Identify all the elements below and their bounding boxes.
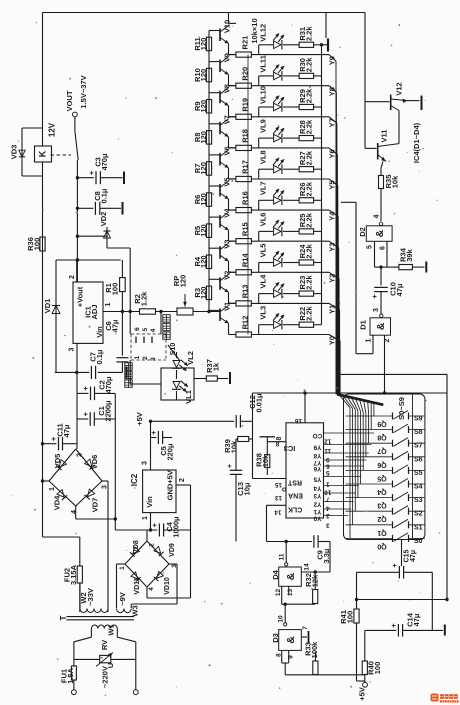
wire VD2 to ADJ node (107, 248, 130, 312)
resistor R22 2.2k (283, 306, 322, 328)
wire Y3 bundle (338, 248, 340, 395)
regulator IC2 (130, 470, 176, 513)
pin 6 D2 (380, 241, 388, 267)
power cell for LED bus (322, 13, 329, 52)
node Y1 tag (328, 303, 340, 314)
svg-text:2.2k: 2.2k (305, 88, 314, 103)
svg-text:+: + (81, 386, 90, 391)
svg-text:Y2: Y2 (328, 274, 337, 283)
svg-text:120: 120 (199, 255, 208, 268)
svg-text:5: 5 (326, 469, 330, 476)
wire Y0 bundle (339, 341, 341, 395)
wire LED stub 7 (258, 263, 260, 273)
resistor R30 2.2k (283, 57, 322, 79)
svg-text:~9V: ~9V (118, 592, 127, 606)
wire row bottom main 2 (252, 116, 330, 118)
terminal AC left (72, 690, 77, 695)
svg-text:2: 2 (77, 453, 84, 457)
svg-text:470μ: 470μ (100, 153, 109, 171)
wire Y7 bundle (336, 123, 338, 394)
svg-text:10k: 10k (391, 175, 400, 188)
svg-text:VL5: VL5 (259, 244, 268, 258)
svg-text:14: 14 (274, 509, 281, 516)
pin 9 Y8 IC3 (313, 452, 369, 463)
pin 10 D3 (278, 615, 287, 626)
winding W2 33V (79, 583, 108, 613)
wire emitter V5 to row (229, 199, 237, 210)
pin 8 D3 (276, 650, 283, 663)
svg-text:RST: RST (287, 478, 302, 485)
label VOUT 1.5V-37V (65, 75, 88, 111)
svg-text:4: 4 (71, 510, 78, 514)
svg-text:Q1: Q1 (377, 529, 386, 536)
resistor R15 10k (236, 222, 252, 243)
svg-text:&: & (374, 229, 386, 237)
svg-text:5: 5 (142, 327, 149, 331)
wire bundle fan diagonal (337, 394, 383, 405)
svg-text:S7: S7 (414, 443, 423, 450)
LED VL7 (259, 181, 285, 205)
transistor V3 (209, 240, 232, 262)
svg-text:CO: CO (313, 432, 323, 439)
svg-text:+: + (370, 294, 379, 299)
svg-text:100: 100 (373, 662, 382, 675)
svg-text:S9: S9 (414, 416, 423, 423)
svg-text:IC4(D1~D4): IC4(D1~D4) (412, 122, 421, 163)
resistor R16 10k (236, 191, 252, 212)
resistor R10 120 (193, 68, 212, 82)
switch S8 (346, 424, 425, 441)
svg-text:S3: S3 (414, 497, 423, 504)
wire Y2 bundle (338, 279, 340, 395)
svg-text:S5: S5 (414, 470, 423, 477)
svg-text:6: 6 (380, 246, 387, 250)
svg-text:Y9: Y9 (313, 443, 321, 450)
pin 13 D4 (287, 586, 294, 596)
LED VL3 (259, 306, 285, 330)
svg-text:10k: 10k (230, 440, 239, 453)
wire ADJ node R2 row (103, 310, 220, 334)
pin 1 Y5 IC3 (313, 475, 361, 487)
counter IC3 (284, 423, 324, 518)
LED VL11 (259, 55, 285, 81)
svg-text:R15: R15 (241, 222, 250, 236)
pin 2 IC2 (176, 478, 191, 598)
svg-text:W1: W1 (107, 624, 116, 635)
wire emitter V6 to row (229, 168, 237, 179)
svg-text:VD6: VD6 (90, 455, 99, 470)
label 12V (48, 122, 57, 137)
wire C15 row (357, 572, 433, 630)
svg-text:V12: V12 (395, 82, 404, 95)
gate D1 (359, 318, 391, 335)
switch S9 (346, 411, 425, 428)
wire row bottom main 8 (252, 302, 330, 304)
switch S5 (346, 465, 425, 482)
svg-text:12: 12 (275, 589, 282, 597)
LED VL1 (172, 352, 193, 404)
svg-text:Vin: Vin (145, 496, 154, 508)
wire bus B +5V logic (253, 391, 448, 394)
svg-text:S0: S0 (414, 538, 423, 545)
wire row bottom 3 (229, 116, 237, 118)
wire LED stub 1 (258, 76, 260, 86)
transistor V1 (209, 302, 232, 324)
LED VL10 (259, 86, 285, 112)
pin 12 D4 (275, 586, 282, 604)
watermark logo (431, 694, 459, 703)
resistor R37 1k (194, 359, 230, 384)
resistor R11 120 (193, 37, 212, 51)
svg-text:D4: D4 (271, 569, 280, 579)
gate D4 (271, 563, 311, 586)
svg-text:2.2k: 2.2k (305, 306, 314, 321)
svg-text:14: 14 (304, 563, 311, 571)
node Y6 tag (328, 148, 338, 159)
resistor R12 10k (236, 316, 252, 337)
svg-text:W3: W3 (131, 605, 140, 616)
wire 10k chain link 3 (247, 148, 249, 179)
wire 10k chain link 0 (247, 55, 249, 86)
svg-text:+: + (87, 170, 96, 175)
wire emitter V3 to row (229, 261, 237, 272)
svg-text:120: 120 (179, 275, 188, 288)
svg-text:VL2: VL2 (186, 351, 195, 365)
wire row bottom 2 (229, 85, 237, 87)
svg-text:220μ: 220μ (166, 443, 175, 461)
svg-text:R19: R19 (241, 98, 250, 112)
svg-text:120: 120 (199, 193, 208, 206)
svg-text:Q5: Q5 (377, 474, 386, 481)
svg-text:4: 4 (150, 328, 157, 332)
resistor R21 10k (236, 36, 252, 57)
svg-text:2.2k: 2.2k (305, 243, 314, 258)
svg-text:+5V: +5V (135, 412, 144, 426)
svg-text:Q4: Q4 (377, 488, 386, 495)
wire 10k chain link 1 (247, 86, 249, 117)
svg-text:&: & (285, 572, 297, 580)
svg-text:Y5: Y5 (313, 475, 321, 482)
svg-text:10k×10: 10k×10 (250, 18, 259, 43)
wire bridge feed (76, 419, 78, 449)
wire LED stub 0 (258, 45, 260, 55)
resistor R9 120 (193, 100, 212, 114)
svg-text:Y9: Y9 (328, 56, 337, 65)
svg-text:12: 12 (324, 437, 332, 444)
wire row bottom 7 (229, 240, 237, 242)
svg-text:Y7: Y7 (328, 118, 337, 127)
svg-text:1.5A: 1.5A (66, 667, 75, 683)
svg-text:R13: R13 (241, 285, 250, 299)
svg-text:Y4: Y4 (328, 211, 337, 221)
svg-text:8: 8 (276, 653, 283, 657)
pin 7 D3 (301, 626, 309, 644)
wire right edge drop (445, 374, 448, 601)
label +5V (135, 412, 144, 426)
svg-text:12k: 12k (311, 574, 320, 587)
switch S2 (346, 506, 425, 523)
capacitor C10 47u (370, 282, 404, 314)
resistor R3 120 (193, 286, 212, 300)
wire row bottom main 6 (252, 240, 330, 242)
wire 10k chain link 5 (247, 210, 249, 241)
svg-text:120: 120 (199, 162, 208, 175)
bridge rectifier VD8-VD11 (119, 530, 178, 595)
wire bus A (336, 373, 447, 375)
svg-text:RV: RV (100, 640, 109, 650)
svg-text:3: 3 (150, 357, 157, 361)
pin 1 IC2 (142, 513, 151, 530)
svg-text:2.2k: 2.2k (305, 212, 314, 227)
svg-text:Y3: Y3 (328, 243, 337, 252)
wire D4 out (282, 603, 316, 623)
wire bridge left AC (43, 480, 50, 482)
capacitor C14 47u (365, 612, 443, 636)
capacitor C12 0.01u (236, 393, 263, 428)
svg-text:2: 2 (179, 478, 186, 482)
wire LED cathode bus (320, 43, 323, 325)
wire LED stub 9 (258, 325, 260, 335)
svg-text:Y2: Y2 (313, 500, 321, 507)
switch bank box S0~S9 (344, 394, 425, 540)
wire 10k chain link 8 (247, 303, 249, 334)
fuse FU1 1.5A (60, 659, 77, 690)
wire LED stub 4 (258, 169, 260, 179)
gate D3 (271, 630, 301, 651)
pin 3 IC2 (142, 421, 151, 470)
wire left rail (41, 13, 44, 538)
svg-text:15: 15 (275, 481, 282, 488)
label low-voltage (125, 363, 132, 388)
svg-text:VD9: VD9 (169, 543, 176, 557)
svg-text:13: 13 (275, 494, 282, 501)
svg-text:100: 100 (111, 283, 120, 296)
resistor R7 120 (193, 162, 212, 176)
wire Y4 bundle (337, 217, 339, 395)
wire D3 out (282, 663, 365, 675)
svg-text:+Vout: +Vout (76, 286, 85, 307)
wire +Vout node (56, 258, 121, 261)
svg-text:VD10: VD10 (164, 577, 171, 595)
wire C9 to pin14 D4 (301, 542, 330, 574)
svg-text:+: + (392, 563, 399, 567)
resistor R8 120 (193, 131, 212, 145)
capacitor C15 47u (392, 540, 417, 579)
resistor R39 10k (223, 437, 253, 454)
svg-text:100k: 100k (310, 641, 319, 659)
svg-text:Y7: Y7 (313, 459, 321, 466)
svg-text:T: T (59, 615, 68, 620)
switch S7 (346, 438, 425, 455)
svg-text:1: 1 (119, 566, 126, 570)
pin 3 Y0 IC3 (313, 514, 348, 528)
svg-text:1: 1 (49, 487, 56, 491)
wire LED stub 8 (258, 294, 260, 304)
svg-text:Q8: Q8 (377, 434, 386, 441)
wire emitter V9 to row (229, 75, 237, 86)
wire bridge2 left to W3 (117, 564, 126, 608)
svg-text:Y6: Y6 (328, 149, 337, 158)
svg-text:4: 4 (148, 587, 155, 591)
capacitor C13 10u (227, 439, 252, 542)
svg-text:+: + (389, 623, 398, 628)
svg-text:D1: D1 (359, 320, 368, 330)
svg-text:VL9: VL9 (259, 119, 268, 133)
svg-text:R16: R16 (241, 191, 250, 205)
svg-text:8: 8 (275, 440, 279, 447)
wire LED stub 5 (258, 200, 260, 210)
pin 4 Y2 IC3 (313, 500, 353, 511)
svg-text:1: 1 (134, 355, 141, 359)
svg-text:Q7: Q7 (377, 447, 386, 454)
svg-text:S2: S2 (414, 511, 423, 518)
wire emitter V7 to row (229, 137, 237, 148)
svg-text:VL1: VL1 (184, 390, 193, 404)
svg-text:9: 9 (326, 456, 330, 463)
svg-text:Y8: Y8 (328, 87, 337, 96)
wire emitter V8 to row (229, 106, 237, 117)
varistor RV (96, 640, 115, 668)
svg-text:VL12: VL12 (259, 24, 268, 42)
svg-text:Q9: Q9 (377, 420, 386, 427)
LED VL9 (259, 119, 285, 143)
node Y3 tag (328, 241, 339, 252)
svg-text:Y4: Y4 (313, 484, 321, 491)
node Y4 tag (328, 210, 339, 221)
transistor V12 (365, 82, 407, 110)
resistor R29 2.2k (283, 88, 322, 110)
svg-text:Q0: Q0 (377, 542, 386, 549)
resistor R5 120 (193, 224, 212, 238)
svg-text:120: 120 (199, 224, 208, 237)
wire bridge right AC (102, 481, 108, 612)
svg-text:Y0: Y0 (328, 336, 337, 345)
wire LED stub 2 (258, 107, 260, 117)
svg-text:Y8: Y8 (313, 452, 321, 459)
capacitor C3 470u (77, 153, 124, 184)
svg-text:7: 7 (302, 626, 309, 630)
svg-text:VL10: VL10 (259, 86, 268, 104)
pin 8 IC3 (276, 436, 283, 440)
node Y2 tag (328, 272, 340, 283)
svg-text:39k: 39k (405, 248, 414, 261)
capacitor C9 3.3u (314, 535, 331, 563)
svg-text:2: 2 (149, 543, 156, 547)
svg-text:V4: V4 (223, 208, 232, 218)
capacitor C7 0.1u (89, 349, 105, 379)
svg-text:ADJ: ADJ (90, 304, 99, 319)
svg-text:VOUT: VOUT (65, 90, 74, 111)
wire row bottom 6 (229, 209, 237, 211)
pin 12 CO IC3 (313, 432, 374, 445)
node Y7 tag (328, 117, 337, 128)
svg-text:V11: V11 (380, 130, 389, 143)
label high-voltage (163, 315, 170, 340)
transistor V6 (209, 146, 232, 168)
node Y5 tag (328, 179, 338, 190)
wire divider bus (208, 31, 210, 312)
svg-text:Y1: Y1 (328, 305, 337, 314)
capacitor C2 470u (77, 372, 115, 400)
svg-text:1: 1 (326, 480, 330, 487)
LED VL12 (259, 24, 285, 50)
svg-text:Y3: Y3 (313, 492, 321, 499)
svg-text:VD2: VD2 (99, 212, 108, 227)
pin 4 D2 (374, 214, 383, 225)
svg-text:D3: D3 (271, 633, 280, 643)
transistor V8 (209, 84, 232, 106)
transistor V5 (209, 177, 232, 199)
resistor R41 100 (339, 609, 359, 681)
pin 9 D3 (288, 650, 295, 663)
svg-text:VD1: VD1 (43, 299, 52, 314)
svg-text:VD5: VD5 (53, 454, 62, 469)
svg-text:10: 10 (324, 488, 332, 495)
svg-text:Y0: Y0 (313, 514, 321, 521)
resistor R24 2.2k (283, 243, 322, 265)
diode VD2 (77, 212, 110, 248)
wire Y6 bundle (336, 154, 338, 394)
svg-text:Y6: Y6 (313, 465, 321, 472)
wire bridge2 right to W3 (131, 564, 177, 608)
capacitor C8 0.1u (77, 188, 122, 215)
svg-text:100: 100 (32, 238, 41, 251)
ground C14 (444, 625, 446, 636)
svg-text:10μ: 10μ (243, 482, 252, 495)
resistor R17 10k (236, 160, 252, 181)
svg-text:VD8: VD8 (133, 540, 140, 554)
wire R41 node (355, 598, 447, 601)
pin 10 Y4 IC3 (313, 484, 359, 495)
wire Y9 bundle (335, 61, 337, 394)
svg-text:47μ: 47μ (410, 550, 417, 562)
svg-text:2.2k: 2.2k (305, 181, 314, 196)
pin 2 Y1 IC3 (313, 508, 351, 519)
svg-text:120: 120 (199, 69, 208, 82)
svg-text:GND: GND (166, 483, 175, 500)
resistor R32 12k (304, 572, 320, 604)
switch contact K-1 (75, 131, 78, 160)
switch S3 (346, 492, 425, 509)
resistor R35 10k (379, 162, 400, 222)
LED indicator box VL1 VL2 (130, 360, 194, 400)
label IC4(D1~D4) (412, 122, 421, 163)
pin 6 Y7 IC3 (313, 459, 366, 470)
switch bank divider (412, 394, 414, 540)
wire row bottom 1 (229, 54, 237, 56)
wire row bottom main 5 (252, 209, 330, 211)
svg-text:R21: R21 (241, 36, 250, 50)
switch S0 (346, 533, 425, 550)
pin 5 Y6 IC3 (313, 465, 364, 476)
winding W1 primary (91, 624, 117, 637)
pin 16 IC3 (295, 393, 305, 424)
wire Vin node (55, 367, 127, 379)
transistor V11 (365, 130, 399, 162)
svg-text:~220V: ~220V (101, 666, 110, 688)
capacitor C4 1000u (115, 516, 190, 538)
svg-text:47μ: 47μ (111, 319, 120, 332)
svg-text:Q3: Q3 (377, 502, 386, 509)
svg-text:3.15A: 3.15A (69, 564, 78, 585)
pin 11 Y9 IC3 (313, 443, 371, 454)
wire row bottom main 3 (252, 147, 330, 149)
wire +5V jog (252, 393, 254, 439)
pin 3 IC1 (69, 343, 78, 372)
wire LED stub 6 (258, 231, 260, 241)
capacitor C11 47u (43, 423, 78, 450)
wire V12 to V11 (398, 111, 400, 144)
